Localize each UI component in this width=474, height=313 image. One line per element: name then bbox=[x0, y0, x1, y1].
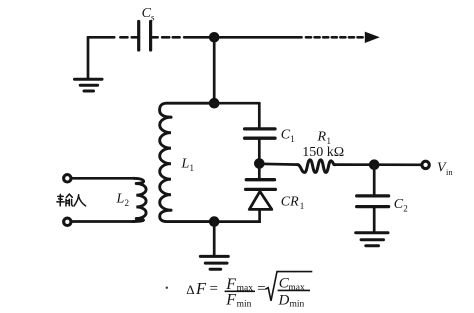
svg-text:L: L bbox=[116, 192, 125, 207]
ground (below C2) bbox=[356, 233, 388, 246]
node C (junction dot on bottom rail) bbox=[209, 216, 220, 227]
resistor R1 bbox=[298, 160, 335, 173]
svg-text:2: 2 bbox=[125, 198, 130, 208]
svg-text:min: min bbox=[237, 299, 252, 309]
capacitor Cs bbox=[139, 22, 151, 51]
svg-text:min: min bbox=[290, 299, 305, 309]
svg-text:1: 1 bbox=[300, 201, 305, 211]
inductor L2 bbox=[133, 178, 146, 221]
svg-text:max: max bbox=[237, 284, 254, 294]
node A (top junction dot) bbox=[209, 32, 220, 43]
svg-text:2: 2 bbox=[403, 204, 408, 214]
svg-text:1: 1 bbox=[190, 163, 195, 173]
wire (Cs to node A, partly dashed) bbox=[152, 36, 214, 39]
svg-text:s: s bbox=[151, 13, 155, 23]
svg-text:CR: CR bbox=[281, 195, 299, 210]
terminal (input top, open circle) bbox=[64, 175, 71, 182]
ground (below bottom rail) bbox=[200, 222, 228, 270]
capacitor C1 bbox=[245, 103, 275, 163]
wire (dashed continuation) bbox=[306, 36, 363, 39]
svg-text:C: C bbox=[394, 197, 404, 212]
svg-text:max: max bbox=[288, 283, 305, 293]
terminal (input bottom, open circle) bbox=[64, 218, 71, 225]
wire (R1 to Vin terminal) bbox=[334, 163, 421, 166]
wire (bottom rail, node C to CR1 corner) bbox=[214, 210, 259, 222]
wire (ground to Cs, partly dashed) bbox=[88, 36, 137, 39]
ground (top left) bbox=[75, 37, 103, 91]
node E (junction dot at C2 tap) bbox=[369, 159, 380, 170]
capacitor C2 bbox=[357, 165, 389, 232]
wire (top rail, node B to C1 corner) bbox=[214, 102, 259, 105]
svg-text:150 kΩ: 150 kΩ bbox=[302, 145, 344, 160]
svg-text:1: 1 bbox=[290, 134, 295, 144]
arrowhead bbox=[365, 32, 380, 43]
inductor L1 bbox=[160, 103, 215, 221]
svg-text:F: F bbox=[225, 291, 236, 308]
svg-text:F: F bbox=[195, 279, 207, 298]
varactor diode CR1 bbox=[246, 164, 276, 210]
svg-text:Δ: Δ bbox=[186, 282, 194, 297]
formula: ΔF = Fmax/Fmin = sqrt(Cmax/Dmin) bbox=[166, 272, 313, 310]
svg-text:L: L bbox=[181, 157, 190, 172]
label 输入 (input) bbox=[57, 194, 86, 206]
wire (bottom terminal to L2) bbox=[73, 220, 133, 223]
svg-text:F: F bbox=[225, 276, 236, 293]
svg-text:R: R bbox=[317, 130, 327, 145]
svg-text:D: D bbox=[278, 292, 290, 308]
wire (node D to R1) bbox=[259, 162, 298, 166]
svg-text:C: C bbox=[281, 127, 291, 142]
wire (node A down to node B) bbox=[213, 37, 216, 103]
wire (top terminal to L2) bbox=[73, 177, 133, 180]
terminal Vin (open circle) bbox=[422, 161, 429, 168]
node B (junction dot on top rail) bbox=[209, 98, 220, 109]
svg-text:in: in bbox=[446, 167, 453, 177]
svg-text:=: = bbox=[210, 281, 218, 297]
svg-text:=: = bbox=[257, 281, 265, 297]
node D (junction dot between C1 and CR1) bbox=[254, 158, 265, 169]
wire (node A to dashed arrow) bbox=[214, 36, 301, 39]
